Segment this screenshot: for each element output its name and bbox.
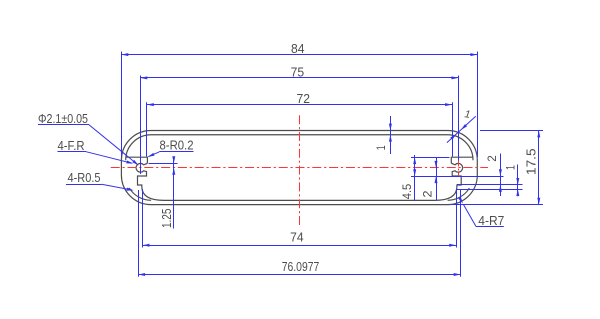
dim 2 (centerline to notch top, cavity) xyxy=(436,158,438,200)
dim 17.5 xyxy=(538,131,540,205)
svg-text:1: 1 xyxy=(506,165,518,170)
svg-text:75: 75 xyxy=(291,65,305,80)
svg-text:72: 72 xyxy=(297,91,311,106)
svg-text:2: 2 xyxy=(423,191,435,198)
dim 74 extension lines xyxy=(142,189,144,248)
dim 74 xyxy=(143,245,457,247)
svg-text:4-R0.5: 4-R0.5 xyxy=(68,170,101,185)
dim 1.25 (lip to centerline) xyxy=(173,157,175,229)
dim 4.5 (boss top to notch top) xyxy=(414,155,416,200)
right hole vertical centerline xyxy=(458,161,460,177)
dim 1 (corner wall thickness, slanted leader) xyxy=(447,116,476,142)
right inner bottom corner arc behind boss xyxy=(448,188,470,200)
dim 76.0977 xyxy=(138,274,460,276)
svg-text:Φ2.1±0.05: Φ2.1±0.05 xyxy=(38,111,88,126)
svg-text:1: 1 xyxy=(376,145,388,150)
extension line boss top y=157.2 xyxy=(411,157,450,159)
svg-text:84: 84 xyxy=(291,41,305,56)
dim 17.5 extension lines xyxy=(480,130,543,132)
svg-text:17.5: 17.5 xyxy=(524,148,538,175)
dim 76.0977 extension lines xyxy=(138,190,140,277)
svg-text:4-F.R: 4-F.R xyxy=(58,138,85,153)
dim 1 (step, right outside) xyxy=(517,165,519,197)
svg-text:4.5: 4.5 xyxy=(402,184,414,200)
dim 84 extension lines xyxy=(121,52,123,158)
extension line notch top y=176.3 xyxy=(411,176,504,178)
left inner bottom corner arc behind boss xyxy=(129,188,151,200)
svg-text:76.0977: 76.0977 xyxy=(282,259,320,274)
dim 75 extension lines xyxy=(140,76,142,175)
svg-text:4-R7: 4-R7 xyxy=(478,213,504,228)
dim 84 xyxy=(121,54,477,56)
extension line lip top y=163.1 xyxy=(149,163,178,165)
dim 1 (top wall thickness) xyxy=(390,116,392,154)
svg-text:74: 74 xyxy=(290,230,304,245)
dim 2 (notch height, right outside) xyxy=(500,154,502,197)
horizontal centerline xyxy=(111,167,488,169)
outer profile contour (84 x 17.5 rounded rectangle R7) xyxy=(121,131,477,205)
svg-text:1.25: 1.25 xyxy=(160,209,174,229)
svg-text:2: 2 xyxy=(487,155,499,162)
inner cavity contour with left and right screw bosses xyxy=(126,135,473,201)
vertical centerline xyxy=(299,115,301,227)
extension line step y=189.1 xyxy=(457,189,523,191)
dim 72 xyxy=(147,104,452,106)
svg-text:8-R0.2: 8-R0.2 xyxy=(160,137,194,152)
dim 72 extension lines xyxy=(146,102,148,156)
extension line notch bottom y=184.9 xyxy=(457,184,523,186)
dim 75 xyxy=(140,77,458,79)
